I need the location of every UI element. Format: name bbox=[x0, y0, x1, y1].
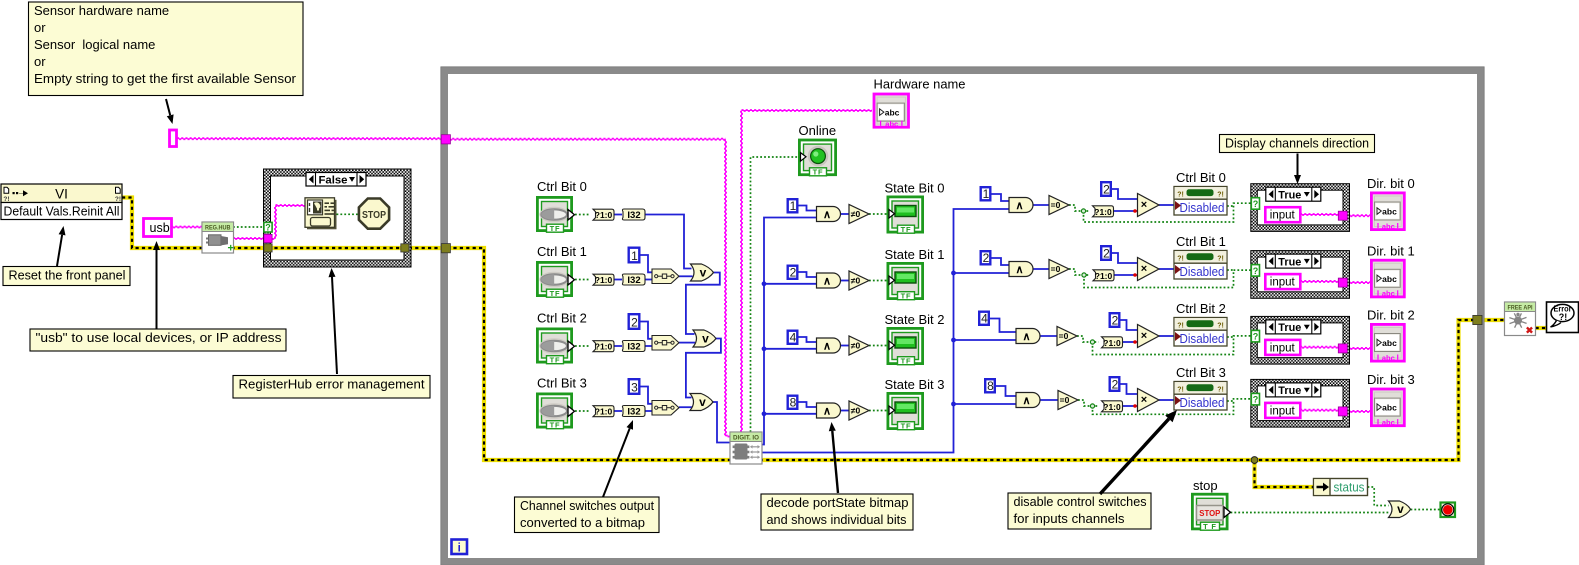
numeric constant 8 row 3 bbox=[788, 396, 798, 409]
svg-text:or: or bbox=[34, 54, 46, 69]
numeric constant 2 row 0 bbox=[1101, 182, 1111, 196]
svg-text:STOP: STOP bbox=[362, 209, 386, 221]
numeric constant 2 row 2 bbox=[1110, 313, 1120, 327]
wire: constant 4 to AND row 2 bbox=[798, 337, 817, 342]
svg-text:?1:0: ?1:0 bbox=[595, 342, 613, 352]
select ?1:0 right row 3 bbox=[1102, 401, 1123, 412]
svg-text:≠0: ≠0 bbox=[851, 276, 861, 286]
svg-text:3: 3 bbox=[631, 381, 638, 395]
svg-text:TF: TF bbox=[901, 421, 912, 430]
svg-text:8: 8 bbox=[790, 396, 797, 410]
junction on error wire bbox=[1251, 457, 1258, 464]
AND gate right row 2 bbox=[1016, 329, 1040, 344]
OR gate stop bbox=[1389, 501, 1411, 518]
case structure True row 2 bbox=[1251, 316, 1350, 364]
wire: constant 2 to AND row 1 bbox=[798, 272, 817, 277]
loop tunnel: error output right (olive) bbox=[1473, 315, 1482, 324]
svg-text:Ctrl Bit 0: Ctrl Bit 0 bbox=[537, 179, 587, 194]
svg-text:for inputs channels: for inputs channels bbox=[1014, 511, 1126, 526]
select ?1:0 right row 2 bbox=[1102, 337, 1123, 348]
wire: AND to equal-zero row 0 bbox=[1033, 204, 1050, 206]
svg-text:Dir. bit 2: Dir. bit 2 bbox=[1367, 308, 1415, 323]
To I32 conversion row 1 bbox=[622, 274, 645, 285]
svg-text:TF: TF bbox=[813, 167, 824, 176]
wire: error cluster from VI node to False case bbox=[122, 198, 266, 249]
wire: True case tunnel to Dir indicator row 0 (pink) bbox=[1344, 214, 1371, 216]
svg-text:?1:0: ?1:0 bbox=[595, 210, 613, 220]
svg-text:?: ? bbox=[1253, 332, 1259, 342]
OR gate V3 bbox=[690, 394, 713, 411]
case structure False bbox=[264, 169, 412, 267]
To I32 conversion row 3 bbox=[622, 405, 645, 416]
wire: constant to AND row 1 right group bbox=[992, 258, 1010, 265]
svg-text:8: 8 bbox=[987, 379, 994, 393]
wire: constant 2 to multiply row 2 bbox=[1121, 320, 1138, 330]
iteration terminal i bbox=[452, 540, 468, 555]
not-equal-zero node row 0 bbox=[849, 205, 869, 224]
svg-text:Display channels direction: Display channels direction bbox=[1225, 136, 1369, 151]
svg-text:Ctrl Bit 1: Ctrl Bit 1 bbox=[537, 244, 587, 259]
numeric constant 2 row 3 bbox=[1110, 377, 1120, 391]
wire: OR V2 output to OR V3 bbox=[686, 339, 721, 398]
wire: I32 row 3 to shift node bbox=[645, 410, 653, 412]
svg-text:disable control switches: disable control switches bbox=[1014, 494, 1147, 509]
svg-text:?: ? bbox=[265, 223, 271, 233]
wire: bus tap to AND row 2 bbox=[764, 348, 817, 350]
equal-zero node row 1 bbox=[1049, 260, 1069, 279]
string constant (empty) for sensor name bbox=[170, 130, 177, 147]
select ?1:0 right row 0 bbox=[1093, 206, 1114, 217]
wire: error cluster through False case to loop bbox=[268, 246, 446, 250]
case tunnel: error out (olive) bbox=[401, 244, 409, 252]
svg-text:∧: ∧ bbox=[823, 276, 831, 288]
svg-text:State Bit 1: State Bit 1 bbox=[885, 247, 945, 262]
case tunnel: selector ? terminal bbox=[264, 222, 272, 232]
svg-text:True: True bbox=[1278, 189, 1301, 201]
wire: usb constant to REG.HUB (pink) bbox=[171, 225, 202, 227]
wire: input constant to tunnel row 0 (pink) bbox=[1300, 213, 1340, 215]
wire: constant to AND row 2 right group bbox=[990, 319, 1017, 333]
svg-text:input: input bbox=[1270, 342, 1296, 354]
wire: I32 row 2 to shift node bbox=[645, 345, 653, 347]
svg-text:DIGIT. IO: DIGIT. IO bbox=[733, 434, 759, 441]
svg-text:?!: ?! bbox=[1217, 387, 1224, 394]
svg-text:=0: =0 bbox=[1060, 395, 1070, 405]
wire: equal-zero to select and case selector row 1 (green) bbox=[1069, 269, 1090, 275]
svg-text:×: × bbox=[1141, 199, 1147, 211]
svg-text:Ctrl Bit 3: Ctrl Bit 3 bbox=[537, 376, 587, 391]
svg-text:?: ? bbox=[1253, 395, 1259, 405]
svg-text:status: status bbox=[1334, 481, 1365, 495]
string constant input row 1 bbox=[1265, 274, 1300, 289]
svg-text:decode portState bitmap: decode portState bitmap bbox=[767, 495, 909, 510]
svg-text:abc: abc bbox=[1382, 274, 1397, 284]
svg-text:TF: TF bbox=[901, 291, 912, 300]
svg-text:Sensor logical name: Sensor logical name bbox=[34, 37, 155, 52]
round LED stopped indicator bbox=[1441, 503, 1456, 518]
svg-text:abc: abc bbox=[1382, 222, 1395, 231]
svg-text:2: 2 bbox=[631, 316, 638, 330]
svg-text:=0: =0 bbox=[1059, 331, 1069, 341]
equal-zero node row 2 bbox=[1057, 327, 1077, 346]
wire: Ctrl Bit 3 to select (green) bbox=[575, 410, 590, 412]
logical shift node row 2 bbox=[652, 336, 679, 351]
numeric constant 2 row 1 bbox=[788, 266, 798, 279]
svg-text:TF: TF bbox=[550, 420, 561, 429]
AND gate right row 1 bbox=[1009, 262, 1033, 277]
wire: AND to equal-zero row 1 bbox=[1033, 268, 1050, 270]
svg-text:VI: VI bbox=[55, 187, 68, 202]
svg-text:Default Vals.Reinit All: Default Vals.Reinit All bbox=[4, 205, 120, 219]
svg-text:True: True bbox=[1278, 322, 1301, 334]
numeric constant 1 row 0 bbox=[788, 199, 798, 212]
wire: constant 3 to shift node bbox=[641, 387, 653, 404]
svg-text:State Bit 3: State Bit 3 bbox=[885, 377, 945, 392]
wire: Online boolean from DIGIT.IO (green) bbox=[751, 157, 799, 432]
AND gate row 2 bbox=[817, 338, 841, 353]
string constant input row 0 bbox=[1265, 207, 1300, 222]
wire: select to I32 row 3 (blue) bbox=[614, 410, 622, 412]
svg-text:i: i bbox=[458, 543, 461, 555]
string constant input row 3 bbox=[1265, 403, 1300, 418]
free label: sensor name comment box bbox=[29, 2, 304, 96]
wire: input constant to tunnel row 3 (pink) bbox=[1300, 408, 1340, 410]
svg-text:2: 2 bbox=[1103, 247, 1110, 261]
svg-text:?1:0: ?1:0 bbox=[595, 407, 613, 417]
svg-text:I32: I32 bbox=[627, 275, 640, 286]
one-button dialog icon bbox=[307, 200, 337, 230]
wire: constant 1 to AND row 0 bbox=[798, 206, 817, 211]
svg-text:?!: ?! bbox=[1217, 192, 1224, 199]
FREE API release icon bbox=[1505, 302, 1536, 336]
wire: AND to equal-zero row 2 bbox=[1040, 335, 1058, 337]
svg-text:≠0: ≠0 bbox=[851, 209, 861, 219]
svg-text:4: 4 bbox=[790, 331, 797, 345]
svg-text:input: input bbox=[1270, 405, 1296, 417]
svg-text:I32: I32 bbox=[627, 407, 640, 418]
label: Reset the front panel bbox=[3, 267, 130, 286]
wire: constant 2 to multiply row 1 bbox=[1112, 253, 1138, 263]
arrow from label to False case bbox=[332, 277, 337, 374]
svg-text:"usb" to use local devices, or: "usb" to use local devices, or IP addres… bbox=[36, 330, 283, 345]
wire: select to I32 row 1 (blue) bbox=[614, 279, 622, 281]
svg-text:2: 2 bbox=[790, 266, 797, 280]
wire: AND to equal-zero row 3 bbox=[1040, 399, 1059, 401]
wire: Hardware name string from DIGIT.IO (pink) bbox=[740, 111, 742, 433]
svg-text:v: v bbox=[699, 395, 706, 409]
select ?1:0 row 0 bbox=[593, 209, 614, 220]
string constant usb bbox=[144, 219, 172, 237]
svg-text:∧: ∧ bbox=[1015, 264, 1023, 276]
case structure True row 0 bbox=[1251, 184, 1350, 232]
svg-text:Ctrl Bit 0: Ctrl Bit 0 bbox=[1176, 170, 1226, 185]
invoke node VI Default Vals.Reinit All bbox=[1, 184, 122, 203]
svg-text:TF: TF bbox=[901, 356, 912, 365]
wire: equal-zero to select and case selector row 3 (green) bbox=[1078, 400, 1099, 406]
wire: shift row3 to OR V3 bbox=[679, 406, 692, 408]
multiply node row 0 bbox=[1138, 194, 1160, 217]
label: usb to use local devices bbox=[30, 329, 286, 351]
svg-text:Sensor hardware name: Sensor hardware name bbox=[34, 3, 169, 18]
case structure True row 1 bbox=[1251, 251, 1350, 299]
svg-text:abc: abc bbox=[1382, 353, 1395, 362]
To I32 conversion row 0 bbox=[622, 209, 645, 220]
arrow from channel label to I32 bbox=[603, 428, 630, 497]
wire: Ctrl Bit 0 to select (green) bbox=[575, 214, 590, 216]
wire: select to multiply row 0 bbox=[1114, 210, 1138, 212]
not-equal-zero node row 3 bbox=[849, 401, 869, 420]
wire: AND to not-equal-zero row 1 bbox=[840, 280, 849, 282]
svg-text:Reset the front panel: Reset the front panel bbox=[9, 268, 126, 283]
wire: DIGIT.IO output to right vertical bus bbox=[761, 209, 1010, 453]
case tunnel string out row 2 (magenta) bbox=[1338, 344, 1347, 353]
svg-text:?!: ?! bbox=[3, 196, 9, 203]
svg-text:?!: ?! bbox=[1177, 192, 1184, 199]
svg-text:v: v bbox=[700, 266, 707, 280]
wire: constant 1 to shift node bbox=[641, 255, 653, 272]
svg-text:2: 2 bbox=[983, 251, 990, 265]
svg-text:1: 1 bbox=[983, 187, 990, 201]
wire: select to multiply row 1 bbox=[1114, 274, 1138, 276]
wire: Ctrl Bit 0 I32 to OR gate V1 bbox=[645, 215, 692, 269]
svg-text:?1:0: ?1:0 bbox=[1103, 402, 1121, 412]
wire: True case tunnel to Dir indicator row 1 (pink) bbox=[1344, 281, 1371, 283]
logical shift node row 3 bbox=[652, 401, 679, 416]
svg-text:=0: =0 bbox=[1051, 264, 1061, 274]
wire: constant 2 to multiply row 3 bbox=[1121, 384, 1138, 394]
wire: equal-zero to select and case selector row 2 (green) bbox=[1077, 336, 1099, 342]
wire: multiply to property node row 2 bbox=[1159, 335, 1174, 337]
numeric constant 3 bbox=[629, 379, 640, 394]
svg-text:input: input bbox=[1270, 210, 1296, 222]
svg-text:?!: ?! bbox=[1177, 256, 1184, 263]
wire: not-equal-zero to State Bit 1 (green) bbox=[869, 280, 887, 282]
svg-text:?!: ?! bbox=[1177, 323, 1184, 330]
svg-text:Dir. bit 0: Dir. bit 0 bbox=[1367, 176, 1415, 191]
arrow from comment to string constant bbox=[166, 99, 170, 115]
OR gate V2 bbox=[693, 330, 716, 347]
wire: multiply to property node row 1 bbox=[1159, 268, 1174, 270]
select ?1:0 right row 1 bbox=[1093, 270, 1114, 281]
wire: select to multiply row 3 bbox=[1123, 405, 1138, 407]
wire: select to I32 row 2 (blue) bbox=[614, 345, 622, 347]
wire: right bus tap to AND row 3 bbox=[954, 403, 1017, 405]
wire: right bus tap to AND row 2 bbox=[954, 339, 1017, 341]
wire: constant to AND row 3 right group bbox=[996, 386, 1017, 396]
svg-text:Ctrl Bit 2: Ctrl Bit 2 bbox=[537, 311, 587, 326]
numeric constant 4 right row 2 bbox=[979, 312, 989, 325]
wire: pink string from tunnel to DIGIT.IO left bbox=[448, 137, 726, 139]
wire: AND to not-equal-zero row 2 bbox=[840, 345, 849, 347]
logical shift node row 1 bbox=[652, 269, 679, 284]
multiply node row 1 bbox=[1138, 258, 1160, 281]
AND gate row 1 bbox=[817, 273, 841, 288]
svg-text:Channel switches output: Channel switches output bbox=[520, 498, 654, 513]
svg-text:∧: ∧ bbox=[1022, 331, 1030, 343]
svg-text:≠0: ≠0 bbox=[851, 341, 861, 351]
svg-text:v: v bbox=[702, 332, 709, 346]
case structure True row 3 bbox=[1251, 379, 1350, 427]
svg-text:v: v bbox=[1397, 502, 1404, 516]
wire: constant 2 to multiply row 0 bbox=[1112, 189, 1138, 199]
svg-text:Dir. bit 3: Dir. bit 3 bbox=[1367, 372, 1415, 387]
numeric constant 4 row 2 bbox=[788, 331, 798, 344]
svg-text:Online: Online bbox=[799, 123, 837, 138]
wire: dialog icon to STOP (green) bbox=[337, 213, 359, 215]
svg-text:Disabled: Disabled bbox=[1180, 395, 1225, 410]
svg-text:4: 4 bbox=[981, 312, 988, 326]
svg-text:I32: I32 bbox=[627, 210, 640, 221]
svg-text:abc: abc bbox=[885, 108, 900, 118]
case selector terminal row 3 bbox=[1251, 393, 1259, 405]
svg-text:✖: ✖ bbox=[1526, 326, 1534, 337]
svg-text:I32: I32 bbox=[627, 342, 640, 353]
DIGIT.IO device icon bbox=[730, 432, 762, 464]
svg-text:Ctrl Bit 3: Ctrl Bit 3 bbox=[1176, 365, 1226, 380]
OR gate V1 bbox=[691, 264, 714, 281]
svg-text:Ctrl Bit 1: Ctrl Bit 1 bbox=[1176, 234, 1226, 249]
svg-text:2: 2 bbox=[1103, 183, 1110, 197]
arrow from reset label to VI node bbox=[57, 235, 62, 266]
wire: string constant to loop tunnel (pink) bbox=[177, 137, 443, 139]
AND gate right row 0 bbox=[1009, 198, 1033, 213]
svg-text:?1:0: ?1:0 bbox=[595, 275, 613, 285]
STOP function icon bbox=[359, 199, 389, 229]
svg-text:≠0: ≠0 bbox=[851, 406, 861, 416]
unbundle by name: status bbox=[1314, 479, 1368, 496]
svg-text:?: ? bbox=[1253, 266, 1259, 276]
wire: shift row1 to OR V1 bbox=[679, 275, 693, 277]
svg-text:∧: ∧ bbox=[1022, 395, 1030, 407]
REG.HUB open VI icon bbox=[202, 222, 234, 253]
svg-text:1: 1 bbox=[631, 249, 638, 263]
svg-text:True: True bbox=[1278, 256, 1301, 268]
AND gate right row 3 bbox=[1016, 393, 1040, 408]
svg-text:?: ? bbox=[1253, 199, 1259, 209]
multiply node row 3 bbox=[1138, 389, 1160, 412]
wire: I32 row 1 to shift node bbox=[645, 279, 653, 281]
wire: pink inside False case to dialog icon bbox=[270, 237, 276, 239]
svg-text:abc: abc bbox=[1382, 403, 1397, 413]
wire: constant 2 to shift node bbox=[641, 322, 653, 339]
wire: status unbundler to OR gate (green) bbox=[1368, 487, 1389, 506]
wire: Ctrl Bit 2 to select (green) bbox=[575, 345, 590, 347]
wire: constant to AND row 0 right group bbox=[992, 194, 1010, 201]
case selector terminal row 0 bbox=[1251, 198, 1259, 210]
svg-text:?1:0: ?1:0 bbox=[1103, 338, 1121, 348]
svg-text:and shows individual bits: and shows individual bits bbox=[767, 512, 907, 527]
wire: multiply to property node row 0 bbox=[1159, 204, 1174, 206]
arrow from decode label to AND gate bbox=[832, 431, 838, 493]
svg-text:∧: ∧ bbox=[1015, 200, 1023, 212]
not-equal-zero node row 2 bbox=[849, 336, 869, 355]
svg-text:True: True bbox=[1278, 385, 1301, 397]
svg-text:input: input bbox=[1270, 277, 1296, 289]
wire: error cluster main run inside loop bbox=[447, 248, 1479, 460]
multiply node row 2 bbox=[1138, 325, 1160, 348]
label: Display channels direction bbox=[1220, 135, 1375, 153]
svg-text:?!: ?! bbox=[1217, 323, 1224, 330]
case selector terminal row 1 bbox=[1251, 265, 1259, 277]
select ?1:0 row 1 bbox=[593, 274, 614, 285]
svg-text:Ctrl Bit 2: Ctrl Bit 2 bbox=[1176, 301, 1226, 316]
svg-text:TF: TF bbox=[901, 225, 912, 234]
wire: DIGIT.IO portState to left vertical bus bbox=[761, 218, 817, 445]
wire: OR V1 output to OR V2 bbox=[686, 273, 720, 335]
svg-text:converted to a bitmap: converted to a bitmap bbox=[520, 515, 645, 530]
wire: not-equal-zero to State Bit 3 (green) bbox=[869, 410, 887, 412]
wire: Ctrl Bit 1 to select (green) bbox=[575, 279, 590, 281]
arrow from usb label to usb constant bbox=[156, 250, 158, 329]
arrow from label to True case bbox=[1297, 154, 1299, 176]
wire: stop button to OR gate (green) bbox=[1231, 512, 1389, 514]
svg-text:TF: TF bbox=[550, 289, 561, 298]
numeric constant 1 right row 0 bbox=[981, 187, 991, 200]
simple error handler icon bbox=[1547, 302, 1579, 333]
wire: error cluster loop to FREE API bbox=[1481, 318, 1505, 322]
numeric constant 2 right row 1 bbox=[981, 251, 991, 264]
wire: OR V3 output to DIGIT.IO port input bbox=[713, 402, 731, 443]
svg-text:∧: ∧ bbox=[823, 209, 831, 221]
wire: True case tunnel to Dir indicator row 3 (pink) bbox=[1344, 410, 1371, 412]
svg-text:∧: ∧ bbox=[823, 406, 831, 418]
wire: not-equal-zero to State Bit 0 (green) bbox=[869, 213, 887, 215]
label: disable control switches bbox=[1008, 493, 1151, 529]
select ?1:0 row 2 bbox=[593, 341, 614, 352]
case tunnel string out row 1 (magenta) bbox=[1338, 278, 1347, 287]
svg-text:State Bit 0: State Bit 0 bbox=[885, 181, 945, 196]
svg-text:×: × bbox=[1141, 263, 1147, 275]
svg-text:abc: abc bbox=[1382, 207, 1397, 217]
wire: input constant to tunnel row 1 (pink) bbox=[1300, 280, 1340, 282]
case tunnel string out row 3 (magenta) bbox=[1338, 407, 1347, 416]
wire: bus tap to AND row 3 bbox=[764, 413, 817, 415]
label: Channel switches output converted to a bitmap bbox=[515, 497, 660, 533]
svg-text:Disabled: Disabled bbox=[1180, 331, 1225, 346]
wire: not-equal-zero to State Bit 2 (green) bbox=[869, 345, 887, 347]
To I32 conversion row 2 bbox=[622, 340, 645, 351]
svg-text:?!: ?! bbox=[1177, 387, 1184, 394]
svg-text:False: False bbox=[319, 174, 348, 186]
wire: select to I32 row 0 (blue) bbox=[614, 214, 622, 216]
svg-text:T F: T F bbox=[1203, 522, 1217, 531]
svg-text:∧: ∧ bbox=[823, 341, 831, 353]
wire: multiply to property node row 3 bbox=[1159, 399, 1174, 401]
svg-text:=0: =0 bbox=[1051, 200, 1061, 210]
svg-text:RegisterHub error management: RegisterHub error management bbox=[239, 377, 425, 392]
wire: OR gate to round LED (green) bbox=[1411, 509, 1441, 511]
wire: equal-zero to select and case selector row 0 (green) bbox=[1069, 205, 1090, 211]
svg-text:×: × bbox=[1141, 330, 1147, 342]
svg-text:Empty string to get the first: Empty string to get the first available … bbox=[34, 71, 297, 86]
numeric constant 2 bbox=[629, 314, 640, 329]
loop tunnel: error input (olive) bbox=[441, 244, 450, 253]
svg-text:?1:0: ?1:0 bbox=[1095, 271, 1113, 281]
svg-text:Hardware name: Hardware name bbox=[874, 77, 966, 92]
wire: REG.HUB error? to case selector (green) bbox=[233, 226, 264, 228]
wire: constant 8 to AND row 3 bbox=[798, 402, 817, 407]
case selector terminal row 2 bbox=[1251, 330, 1259, 342]
wire: True case tunnel to Dir indicator row 2 (pink) bbox=[1344, 347, 1371, 349]
svg-text:or: or bbox=[34, 20, 46, 35]
svg-text:Dir. bit 1: Dir. bit 1 bbox=[1367, 243, 1415, 258]
svg-text:stop: stop bbox=[1193, 478, 1218, 493]
svg-text:abc: abc bbox=[1382, 338, 1397, 348]
wire: input constant to tunnel row 2 (pink) bbox=[1300, 345, 1340, 347]
AND gate row 3 bbox=[817, 403, 841, 418]
loop tunnel: string input (magenta) bbox=[441, 135, 450, 144]
svg-text:?!: ?! bbox=[1559, 312, 1568, 322]
